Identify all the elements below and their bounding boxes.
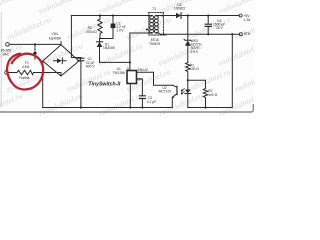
svg-text:T50676: T50676 [149, 42, 160, 46]
svg-text:1 KV: 1 KV [116, 29, 124, 33]
svg-text:1N4005: 1N4005 [103, 46, 115, 50]
svg-text:TNY266: TNY266 [113, 71, 125, 75]
node feedback tee [187, 79, 189, 81]
image bottom border [0, 104, 253, 112]
wire +5V rail [181, 15, 239, 17]
svg-text:100 Ω: 100 Ω [208, 93, 217, 97]
capacitor C1 [78, 58, 84, 61]
wire AC top [9, 43, 61, 45]
wire source [129, 84, 131, 108]
svg-text:16 V: 16 V [216, 26, 224, 30]
svg-text:EN/UV: EN/UV [138, 68, 149, 72]
wire DC minus down [42, 61, 44, 108]
svg-text:КЦ405А: КЦ405А [49, 36, 62, 40]
wire primary ground rail [43, 107, 173, 109]
wire RTN rail [160, 33, 239, 35]
optocoupler U2 LED [187, 80, 189, 89]
resistor R1 [186, 63, 190, 81]
svg-text:TinySwitch-II: TinySwitch-II [88, 82, 120, 88]
svg-text:4-6Ω: 4-6Ω [22, 65, 30, 69]
node C2 top [112, 14, 114, 16]
svg-text:1N5822: 1N5822 [174, 7, 186, 11]
capacitor C4 [207, 16, 209, 24]
diode D2 [176, 13, 181, 19]
wire BP [137, 79, 143, 96]
IC U1 TinySwitch [127, 71, 137, 84]
red annotation circle [7, 54, 43, 90]
resistor R2f [203, 80, 207, 107]
terminal RTN [239, 33, 242, 36]
wire secondary top [158, 15, 176, 17]
wire primary bottom [130, 33, 150, 62]
resistor F1 [8, 70, 61, 74]
svg-text:VAC: VAC [3, 53, 10, 57]
watermark texture [0, 0, 280, 118]
frame left edge [0, 12, 2, 106]
transformer T1 windings [150, 15, 159, 33]
node input junction [34, 43, 36, 45]
wire secondary return bottom [188, 34, 233, 107]
node polarity dots [146, 29, 148, 31]
wire dashed option [34, 46, 36, 61]
capacitor C2 [112, 16, 114, 24]
svg-text:T1: T1 [152, 7, 156, 11]
bridge rectifier VD4 [43, 45, 79, 76]
capacitor C3 [139, 96, 145, 99]
terminal AC bottom [5, 71, 9, 75]
wire top rail [71, 15, 149, 17]
wire DC plus jog [79, 58, 81, 61]
node R2 top [99, 14, 101, 16]
wire tee to R2f [188, 79, 206, 81]
wire clamp node [100, 38, 113, 40]
terminal AC top [6, 43, 10, 47]
resistor R2 [98, 16, 102, 39]
svg-text:100 Ω: 100 Ω [190, 67, 199, 71]
svg-text:1.2A: 1.2A [244, 18, 252, 22]
svg-text:3.9 V: 3.9 V [191, 50, 199, 54]
wire bridge bottom stub [60, 73, 62, 77]
transformer core/shield dashed [148, 12, 150, 35]
diode D1 [99, 39, 101, 42]
wire drain [100, 61, 130, 63]
svg-text:200 kΩ: 200 kΩ [86, 30, 97, 34]
terminal +5V [239, 14, 242, 17]
optocoupler U2 phototransistor [173, 85, 177, 87]
svg-text:0.1 µF: 0.1 µF [147, 100, 156, 104]
wire EN/UV [137, 72, 173, 85]
svg-text:Fusible: Fusible [19, 76, 30, 80]
node diamond mark [33, 51, 37, 55]
svg-text:RTN: RTN [244, 32, 251, 36]
zener VR1 [187, 16, 189, 41]
svg-text:400 V: 400 V [86, 65, 95, 69]
svg-text:MCT272: MCT272 [159, 90, 172, 94]
